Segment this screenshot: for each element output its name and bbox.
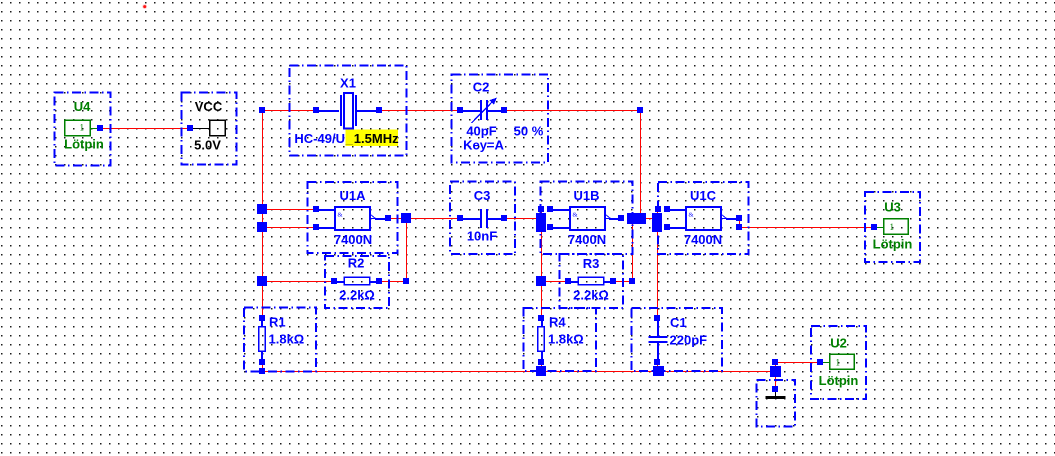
svg-text:R3: R3 [583,256,600,271]
svg-text:2.2kΩ: 2.2kΩ [339,288,375,303]
svg-text:U1A: U1A [339,188,366,203]
svg-text:R4: R4 [549,315,566,330]
svg-text:_: _ [345,131,354,146]
svg-text:C1: C1 [670,315,687,330]
svg-text:1.8kΩ: 1.8kΩ [269,332,305,347]
svg-text:U2: U2 [830,336,847,351]
svg-text:220pF: 220pF [670,333,708,348]
svg-text:1.5MHz: 1.5MHz [354,131,399,146]
svg-text:7400N: 7400N [684,232,722,247]
svg-text:&: & [689,212,694,219]
svg-text:2.2kΩ: 2.2kΩ [573,288,609,303]
svg-text:50 %: 50 % [514,123,544,138]
svg-text:7400N: 7400N [334,232,372,247]
svg-text:HC-49/U: HC-49/U [294,131,345,146]
svg-text:Lötpin: Lötpin [819,373,859,388]
svg-text:40pF: 40pF [466,123,496,138]
svg-text:1: 1 [80,123,85,133]
svg-text:U1C: U1C [690,188,717,203]
svg-text:U1B: U1B [573,188,599,203]
svg-text:1: 1 [890,222,895,232]
svg-text:1: 1 [836,358,841,368]
svg-text:Lötpin: Lötpin [64,137,104,152]
svg-text:1.8kΩ: 1.8kΩ [548,332,584,347]
svg-text:X1: X1 [340,76,356,91]
svg-text:U3: U3 [884,200,901,215]
svg-text:&: & [573,212,578,219]
svg-text:R2: R2 [348,256,365,271]
svg-text:C3: C3 [474,188,491,203]
svg-text:U4: U4 [74,99,91,114]
svg-text:Key=A: Key=A [463,138,504,153]
svg-text:C2: C2 [473,80,490,95]
svg-text:VCC: VCC [195,99,223,114]
svg-text:R1: R1 [269,315,286,330]
svg-text:10nF: 10nF [467,229,497,244]
svg-text:Lötpin: Lötpin [873,237,913,252]
svg-text:&: & [338,212,343,219]
svg-text:5.0V: 5.0V [194,138,221,153]
svg-text:7400N: 7400N [568,232,606,247]
